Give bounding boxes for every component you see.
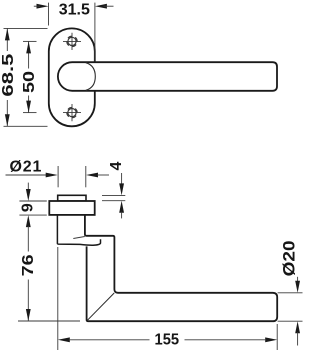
- svg-text:31.5: 31.5: [59, 2, 90, 19]
- svg-text:Ø21: Ø21: [10, 159, 43, 176]
- collar left edge + scoop: [57, 215, 100, 245]
- dim 50: line + arrows: [28, 41, 30, 68]
- dim 31.5: arrows: [37, 4, 107, 9]
- dim 31.5: extension lines: [48, 3, 50, 26]
- rose flange (side view): [49, 201, 94, 215]
- dim 155: [57, 247, 59, 350]
- dim 76: [27, 226, 29, 251]
- svg-text:68.5: 68.5: [0, 53, 17, 96]
- thin transition line under rose: [73, 237, 85, 239]
- svg-text:9: 9: [19, 203, 36, 212]
- rose cap (side view): [58, 195, 86, 201]
- screw hole bottom: [63, 104, 81, 121]
- screw hole top: [63, 33, 81, 50]
- dim 9: [27, 183, 29, 191]
- svg-text:50: 50: [20, 71, 38, 93]
- svg-text:Ø20: Ø20: [280, 240, 299, 276]
- svg-text:155: 155: [155, 331, 180, 349]
- handle outline (arm + grip): [85, 215, 277, 321]
- lever grip (front view, stadium shape): [58, 62, 277, 91]
- handle body fill: [85, 215, 277, 321]
- svg-text:76: 76: [19, 254, 37, 276]
- neck transition arc (front view): [86, 63, 96, 91]
- oval rose (front view): [49, 28, 95, 126]
- dim 68.5: line + arrows: [6, 28, 8, 51]
- miter line at elbow: [87, 293, 114, 321]
- svg-text:4: 4: [108, 161, 125, 170]
